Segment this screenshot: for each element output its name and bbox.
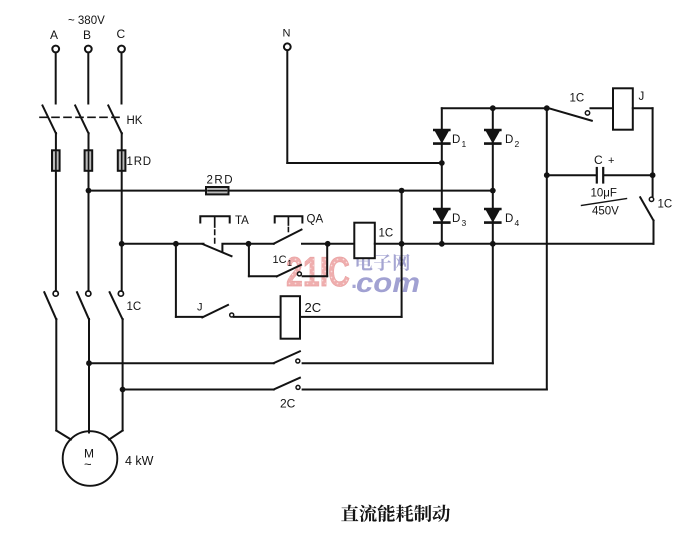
svg-text:TA: TA xyxy=(235,215,249,227)
svg-text:com: com xyxy=(356,267,420,298)
svg-text:1C: 1C xyxy=(127,301,142,313)
junction capacitor rail left xyxy=(544,172,550,178)
svg-text:2C: 2C xyxy=(280,397,296,411)
svg-text:4 kW: 4 kW xyxy=(125,454,154,468)
wire 2C coil to feeder xyxy=(300,316,402,318)
value divider line xyxy=(582,199,627,206)
wire braking line 2 left xyxy=(123,389,274,391)
wire phase C to contact xyxy=(121,171,123,291)
label D1 xyxy=(452,134,467,149)
junction capacitor rail right xyxy=(650,172,656,178)
contact 2C on braking line 1 xyxy=(274,351,300,363)
svg-text:1C: 1C xyxy=(658,199,673,211)
wire phase B to contact xyxy=(88,171,90,291)
label D3 xyxy=(452,213,467,228)
wire coil 1C to bridge xyxy=(375,243,442,245)
wire 2RD rail right xyxy=(229,190,493,192)
contact 2C on braking line 2 xyxy=(274,378,300,390)
pushbutton TA (stop, NC) xyxy=(200,216,248,256)
wire coil feeder vertical xyxy=(401,191,403,317)
junction QA right / self-hold branch xyxy=(325,241,331,247)
relay coil J xyxy=(613,88,633,129)
wire bridge left leg xyxy=(441,108,443,244)
svg-text:2: 2 xyxy=(515,139,520,149)
junction phase C / control rail xyxy=(119,241,125,247)
main contact 1C phase B xyxy=(77,291,91,319)
svg-text:2RD: 2RD xyxy=(207,175,235,187)
svg-text:4: 4 xyxy=(515,218,520,228)
wire motor lead C diagonal xyxy=(109,431,123,440)
fuse 1RD phase C xyxy=(118,150,126,171)
junction 2RD rail / bridge right leg xyxy=(490,188,496,194)
svg-text:1: 1 xyxy=(288,259,293,268)
junction TA right / self-hold branch xyxy=(246,241,252,247)
contact 1C discharge (NO, vertical) xyxy=(640,175,654,244)
wire right drop to capacitor rail xyxy=(652,108,654,175)
wire 2C branch vertical xyxy=(175,244,177,317)
svg-text:D: D xyxy=(505,213,513,225)
junction phase C / braking line 2 xyxy=(120,387,126,393)
terminal B xyxy=(85,46,92,53)
wire capacitor rail right xyxy=(604,174,653,176)
wire motor lead A diagonal xyxy=(56,431,71,440)
coil 1C xyxy=(354,223,375,259)
wire phase C from terminal xyxy=(121,53,123,104)
svg-text:C: C xyxy=(594,153,603,167)
svg-text:~: ~ xyxy=(84,457,92,472)
svg-text:QA: QA xyxy=(307,214,324,226)
wire capacitor branch vertical xyxy=(546,108,548,389)
wire braking line 1 right xyxy=(303,362,493,364)
svg-text:D: D xyxy=(505,134,513,146)
svg-text:3: 3 xyxy=(462,218,467,228)
svg-text:A: A xyxy=(50,28,58,42)
wire capacitor rail left xyxy=(547,174,597,176)
label C + xyxy=(594,153,614,167)
label 1C1 xyxy=(273,254,293,268)
wire braking line 1 left xyxy=(89,362,274,364)
svg-text:1C: 1C xyxy=(570,93,585,105)
junction N / bridge left leg xyxy=(439,160,445,166)
wire C blade to fuse xyxy=(121,133,123,151)
svg-text:1RD: 1RD xyxy=(127,156,152,168)
contact 1C to relay J (NO) xyxy=(550,108,592,120)
caption 直流能耗制动 xyxy=(341,505,358,522)
wire phase A to motor xyxy=(55,319,57,431)
terminal C xyxy=(118,46,125,53)
capacitor C 10uF 450V xyxy=(597,168,603,183)
wire bridge bottom rail xyxy=(442,243,654,245)
wire 2C branch to J contact xyxy=(176,316,202,318)
fuse 2RD xyxy=(206,187,229,194)
terminal A xyxy=(52,46,59,53)
watermark 21IC.com 电子网 xyxy=(286,248,420,298)
svg-text:~ 380V: ~ 380V xyxy=(68,15,105,27)
self-holding contact 1C1 branch xyxy=(249,244,327,277)
svg-text:2C: 2C xyxy=(305,300,322,315)
wire 2RD rail left xyxy=(89,190,207,192)
svg-text:+: + xyxy=(608,155,614,167)
diode D3 xyxy=(434,209,449,223)
wire bridge top rail xyxy=(442,107,547,109)
wire control rail C to TA xyxy=(122,243,204,245)
label D4 xyxy=(505,213,520,228)
wire B blade to fuse xyxy=(88,133,90,151)
wire rail TA to QA xyxy=(249,243,274,245)
diode D4 xyxy=(485,209,500,223)
wire relay J to right drop xyxy=(633,107,653,109)
svg-text:B: B xyxy=(83,28,91,42)
wire phase A from terminal xyxy=(55,53,57,104)
wire braking line 2 right xyxy=(303,389,547,391)
svg-text:1C: 1C xyxy=(379,228,394,240)
wire phase B to motor xyxy=(88,319,90,433)
svg-text:10μF: 10μF xyxy=(591,188,617,200)
junction top rail / capacitor branch xyxy=(544,105,550,111)
svg-text:D: D xyxy=(452,134,460,146)
svg-text:1: 1 xyxy=(462,139,467,149)
wire N horizontal to bridge xyxy=(287,162,442,164)
relay contact J (NO) xyxy=(202,305,233,318)
wire A blade to fuse xyxy=(55,133,57,151)
coil 2C xyxy=(281,296,300,339)
fuse 1RD phase A xyxy=(52,150,60,171)
junction top rail / right leg xyxy=(490,105,496,111)
junction phase B / 2RD rail xyxy=(86,188,92,194)
pushbutton QA (start, NO) xyxy=(274,216,303,243)
knife switch HK xyxy=(40,106,124,134)
wire phase A to contact xyxy=(55,171,57,291)
junction control rail / 2C branch xyxy=(173,241,179,247)
wire phase B from terminal xyxy=(87,53,89,104)
junction coil feeder / control rail xyxy=(399,241,405,247)
junction phase B / braking line 1 xyxy=(86,360,92,366)
svg-text:HK: HK xyxy=(127,115,143,127)
junction bottom rail / right leg xyxy=(490,241,496,247)
diode D2 xyxy=(485,130,500,144)
junction bottom rail / left leg xyxy=(439,241,445,247)
svg-text:N: N xyxy=(283,28,291,40)
wire N vertical xyxy=(286,50,288,163)
wire rail QA to coil xyxy=(302,243,354,245)
svg-text:J: J xyxy=(197,302,203,314)
svg-text:J: J xyxy=(639,91,645,103)
svg-text:21IC: 21IC xyxy=(286,248,350,295)
terminal N xyxy=(284,43,291,50)
svg-text:1C: 1C xyxy=(273,254,287,266)
fuse 1RD phase B xyxy=(85,150,93,171)
svg-text:D: D xyxy=(452,213,460,225)
diode D1 xyxy=(434,130,449,144)
label D2 xyxy=(505,134,520,149)
wire phase C to motor xyxy=(122,319,124,431)
wire 1C contact to relay J xyxy=(591,107,614,109)
motor M 4kW xyxy=(63,431,118,486)
main contact 1C phase A xyxy=(44,291,58,319)
svg-text:C: C xyxy=(117,27,126,41)
junction 2RD rail / coil feeder xyxy=(399,188,405,194)
wire bridge right leg xyxy=(492,108,494,363)
svg-text:450V: 450V xyxy=(592,206,619,218)
wire J contact to 2C coil xyxy=(234,316,281,318)
main contact 1C phase C xyxy=(110,291,124,319)
